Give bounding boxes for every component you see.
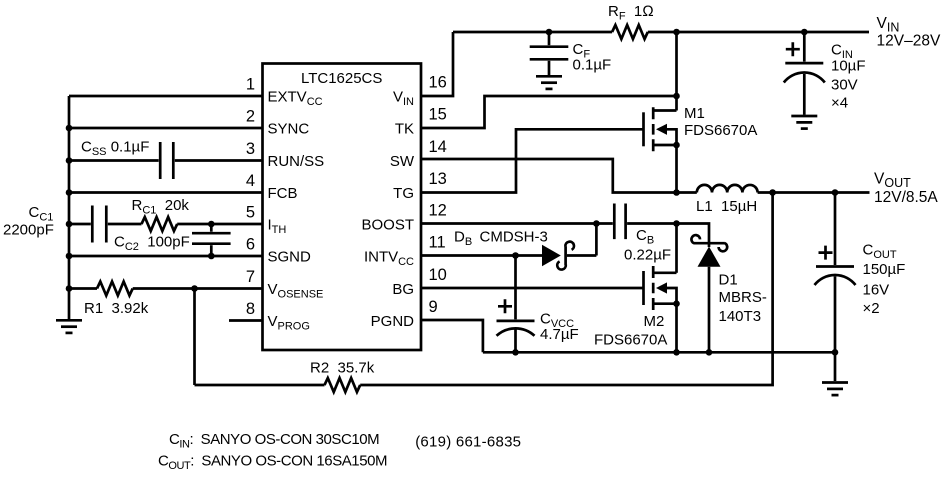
wire R2 tap down (193, 289, 196, 386)
wire switch node to D1 cathode (677, 224, 710, 248)
node RF-M1 junction (673, 29, 680, 36)
svg-text:10: 10 (429, 266, 447, 284)
svg-text:6: 6 (246, 236, 255, 254)
wire CB to switch node vertical (627, 222, 676, 225)
ground main (822, 381, 848, 384)
wire CF top stem (548, 32, 551, 45)
svg-text:BOOST: BOOST (361, 217, 414, 234)
svg-text:VOUT: VOUT (874, 171, 911, 191)
svg-text:COUT: SANYO OS-CON 16SA150M: COUT: SANYO OS-CON 16SA150M (158, 453, 387, 473)
svg-text:ITH: ITH (268, 217, 287, 237)
resistor R1 3.92k (97, 282, 133, 296)
svg-text:CMDSH-3: CMDSH-3 (480, 229, 548, 246)
svg-text:12V–28V: 12V–28V (877, 33, 941, 50)
svg-text:EXTVCC: EXTVCC (268, 89, 323, 109)
inductor L1 15uH (697, 185, 758, 193)
node INTVCC-CVCC junction (512, 252, 519, 259)
svg-text:VIN: VIN (393, 89, 414, 109)
svg-text:5: 5 (246, 204, 255, 222)
svg-text:CSS 0.1µF: CSS 0.1µF (81, 139, 149, 159)
wire CSS to pin3 RUN/SS (175, 159, 263, 162)
svg-text:FCB: FCB (268, 185, 298, 202)
svg-text:10µF: 10µF (831, 58, 866, 75)
svg-text:16: 16 (429, 74, 447, 92)
resistor RF 1 ohm (612, 25, 648, 39)
wire pin14 SW to switch node (421, 159, 677, 193)
resistor RC1 20k (142, 217, 178, 231)
svg-text:14: 14 (429, 138, 447, 156)
wire left bus vertical (68, 96, 71, 320)
wire pin9 PGND down to ground rail (421, 320, 483, 352)
wire bus to CSS (69, 159, 159, 162)
transistor M1 FDS6670A (642, 112, 645, 146)
node VOSENSE-R2 tap junction (191, 285, 198, 292)
wire R1 to bus (69, 287, 97, 290)
capacitor CC2 100pF (192, 233, 231, 244)
svg-text:RC1 20k: RC1 20k (132, 197, 190, 217)
svg-text:16V: 16V (863, 282, 890, 299)
wire pin7 VOSENSE to R1 (133, 287, 263, 290)
wire bus to CC1 (69, 223, 91, 226)
svg-text:CB: CB (636, 227, 654, 247)
wire CIN top stem (803, 32, 806, 62)
svg-text:DB: DB (454, 229, 472, 249)
svg-text:11: 11 (429, 234, 446, 252)
svg-text:0.1µF: 0.1µF (573, 57, 612, 74)
svg-text:PGND: PGND (371, 313, 415, 330)
node CIN junction (801, 29, 808, 36)
wire VIN rail down to M1 drain (675, 32, 678, 111)
capacitor CB 0.22uF (614, 204, 625, 240)
svg-text:RF 1Ω: RF 1Ω (608, 3, 654, 23)
diode D1 MBRS140T3 schottky (698, 247, 721, 267)
wire RC1 to pin5 ITH (177, 223, 262, 226)
svg-text:(619) 661-6835: (619) 661-6835 (415, 434, 521, 451)
transistor M2 FDS6670A (642, 271, 645, 305)
capacitor CC1 2200pF (92, 206, 106, 243)
node ITH-CC2 junction (208, 221, 215, 228)
node D1-rail junction (706, 349, 713, 356)
svg-text:L1 15µH: L1 15µH (696, 198, 757, 215)
wire CIN bottom stem (803, 74, 806, 115)
wire R2 left segment (195, 384, 325, 387)
wire D1 anode to ground rail (708, 267, 711, 353)
node bus-SYNC junction (66, 125, 73, 132)
wire pin15 TK to M1 drain node (421, 96, 677, 128)
wire pin2 SYNC to bus (69, 127, 263, 130)
diode DB CMDSH-3 schottky (542, 245, 561, 266)
svg-text:0.22µF: 0.22µF (624, 247, 671, 264)
svg-text:VPROG: VPROG (268, 313, 310, 333)
ground CIN (791, 115, 817, 118)
svg-text:M1: M1 (684, 105, 705, 122)
svg-text:VOSENSE: VOSENSE (268, 281, 324, 301)
svg-text:×2: ×2 (863, 300, 880, 317)
node COUT-rail junction (832, 349, 839, 356)
svg-text:SW: SW (390, 153, 415, 170)
svg-text:2: 2 (246, 108, 255, 126)
wire pin12 BOOST to CB (421, 222, 613, 225)
wire pin1 EXTVCC to left bus (69, 95, 263, 98)
svg-text:4: 4 (246, 172, 255, 190)
plus sign CIN (786, 42, 800, 56)
node SGND-CC2 junction (208, 253, 215, 260)
node bus-ITH junction (66, 221, 73, 228)
svg-text:×4: ×4 (831, 94, 848, 111)
svg-text:150µF: 150µF (863, 261, 906, 278)
wire top rail left of RF (453, 31, 612, 34)
wire pin4 FCB to bus (69, 191, 263, 194)
svg-text:CIN: SANYO OS-CON 30SC10M: CIN: SANYO OS-CON 30SC10M (169, 431, 379, 451)
wire pin6 SGND to bus (69, 255, 263, 258)
wire R2 right segment to VOUT riser (360, 193, 772, 386)
wire top rail right of RF (648, 31, 869, 34)
svg-text:SYNC: SYNC (268, 121, 310, 138)
resistor R2 35.7k (325, 378, 361, 392)
node bus-VOSENSE junction (66, 285, 73, 292)
node L1-R2 junction (769, 189, 776, 196)
capacitor CVCC 4.7uF polarized (497, 320, 535, 323)
svg-text:140T3: 140T3 (719, 308, 762, 325)
svg-text:1: 1 (246, 76, 255, 94)
svg-text:TG: TG (393, 185, 414, 202)
wire pin8 VPROG stub (229, 319, 263, 322)
plus sign CVCC (498, 299, 512, 313)
node bus-SGND junction (66, 253, 73, 260)
wire rail to main ground (834, 352, 837, 381)
wire CVCC top stem (514, 256, 517, 320)
node TK-M1 drain junction (673, 93, 680, 100)
wire M2 source to ground rail (675, 304, 678, 353)
wire DB cathode riser to BOOST (595, 224, 598, 256)
wire CVCC bottom stem (514, 329, 517, 353)
svg-text:13: 13 (429, 170, 447, 188)
svg-text:30V: 30V (831, 77, 858, 94)
node BOOST-DB junction (593, 220, 600, 227)
svg-text:2200pF: 2200pF (3, 221, 54, 238)
svg-text:3: 3 (246, 140, 255, 158)
svg-text:RUN/SS: RUN/SS (268, 153, 325, 170)
svg-text:15: 15 (429, 106, 447, 124)
ground left bus (56, 319, 82, 322)
node bus-FCB junction (66, 189, 73, 196)
node CVCC-rail junction (512, 349, 519, 356)
capacitor CSS 0.1uF (160, 142, 173, 179)
svg-text:FDS6670A: FDS6670A (594, 332, 667, 349)
svg-text:12V/8.5A: 12V/8.5A (874, 189, 938, 206)
wire COUT bottom stem (834, 277, 837, 353)
capacitor CIN 10uF polarized (785, 62, 823, 65)
wire pin11 INTVCC to DB anode (421, 254, 542, 257)
svg-text:MBRS-: MBRS- (719, 289, 767, 306)
svg-text:COUT: COUT (863, 242, 897, 262)
IC U1 LTC1625CS controller body (263, 64, 422, 351)
wire pin10 BG to M2 gate (421, 287, 644, 290)
wire M2 drain riser (675, 224, 678, 273)
wire DB cathode to riser (567, 254, 596, 257)
svg-text:FDS6670A: FDS6670A (684, 122, 757, 139)
wire switch node to L1 (677, 191, 697, 194)
svg-text:D1: D1 (719, 271, 738, 288)
svg-text:INTVCC: INTVCC (364, 249, 414, 269)
svg-text:8: 8 (246, 300, 255, 318)
wire CC2 top stem (210, 224, 213, 232)
node COUT junction (832, 189, 839, 196)
svg-text:12: 12 (429, 202, 447, 220)
capacitor COUT 150uF polarized (816, 265, 854, 268)
wire COUT top stem (834, 193, 837, 266)
wire CC1 to RC1 (108, 223, 142, 226)
wire M1 source to SW node (675, 145, 678, 193)
node bus-RUN/SS junction (66, 157, 73, 164)
svg-text:9: 9 (429, 298, 438, 316)
ground CF (536, 75, 562, 78)
node M2 source-rail junction (673, 349, 680, 356)
svg-text:TK: TK (395, 121, 414, 138)
wire CF bottom stem (548, 61, 551, 75)
wire CC2 bottom stem (210, 245, 213, 256)
svg-text:R1 3.92k: R1 3.92k (84, 300, 149, 317)
svg-text:M2: M2 (644, 313, 665, 330)
plus sign COUT (819, 246, 833, 260)
svg-text:SGND: SGND (268, 249, 312, 266)
svg-text:BG: BG (392, 281, 414, 298)
svg-text:4.7µF: 4.7µF (540, 326, 579, 343)
svg-text:LTC1625CS: LTC1625CS (301, 70, 382, 87)
capacitor CF 0.1uF (530, 47, 569, 60)
wire L1 to VOUT (758, 191, 870, 194)
wire pin16 VIN up to top rail (421, 32, 453, 96)
node CB-SW junction (673, 220, 680, 227)
node CF junction (546, 29, 553, 36)
wire pin13 TG to M1 gate (421, 129, 644, 192)
svg-text:CC2 100pF: CC2 100pF (114, 234, 190, 254)
wire ground rail (483, 351, 835, 354)
svg-text:R2 35.7k: R2 35.7k (310, 360, 375, 377)
node switch node junction (673, 189, 680, 196)
svg-text:7: 7 (246, 268, 255, 286)
